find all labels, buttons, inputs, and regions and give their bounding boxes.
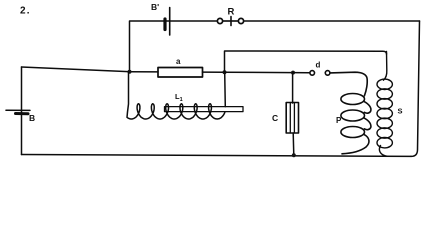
key R <box>217 7 243 26</box>
wire left vertical <box>21 67 23 155</box>
wire top: left corner to right edge <box>130 21 420 72</box>
wire middle: junction to resistor a <box>130 71 159 73</box>
svg-text:d: d <box>316 61 321 70</box>
svg-text:C: C <box>272 113 278 123</box>
capacitor C <box>272 73 299 156</box>
wire middle left segment <box>22 67 130 72</box>
junction node above capacitor <box>291 71 295 75</box>
spark gap d <box>310 61 330 76</box>
junction node at left vertical <box>128 70 132 74</box>
battery B' <box>151 2 170 35</box>
primary coil P <box>330 72 371 154</box>
svg-text:P: P <box>336 116 342 125</box>
svg-text:R: R <box>228 7 235 18</box>
wire: resistor a to node <box>203 71 225 73</box>
svg-text:B: B <box>29 113 35 123</box>
wire: node to capacitor node <box>225 71 294 73</box>
junction node above inductor <box>223 70 227 74</box>
svg-text:B': B' <box>151 2 159 12</box>
secondary coil S <box>377 52 403 157</box>
battery B <box>6 110 35 123</box>
inductor L1 <box>127 72 225 119</box>
wire bottom <box>22 155 412 157</box>
slide core bar of L1 <box>165 107 244 112</box>
wire: node down to core bar <box>224 72 227 106</box>
svg-text:2.: 2. <box>20 6 31 17</box>
svg-text:a: a <box>176 57 181 66</box>
svg-text:S: S <box>398 107 403 116</box>
junction node capacitor-bottom <box>292 153 296 157</box>
wire right edge down <box>411 21 420 156</box>
wire: upper branch node to S coil corner <box>225 51 387 72</box>
resistor a <box>158 68 203 78</box>
wire: node to spark gap d <box>293 72 310 74</box>
